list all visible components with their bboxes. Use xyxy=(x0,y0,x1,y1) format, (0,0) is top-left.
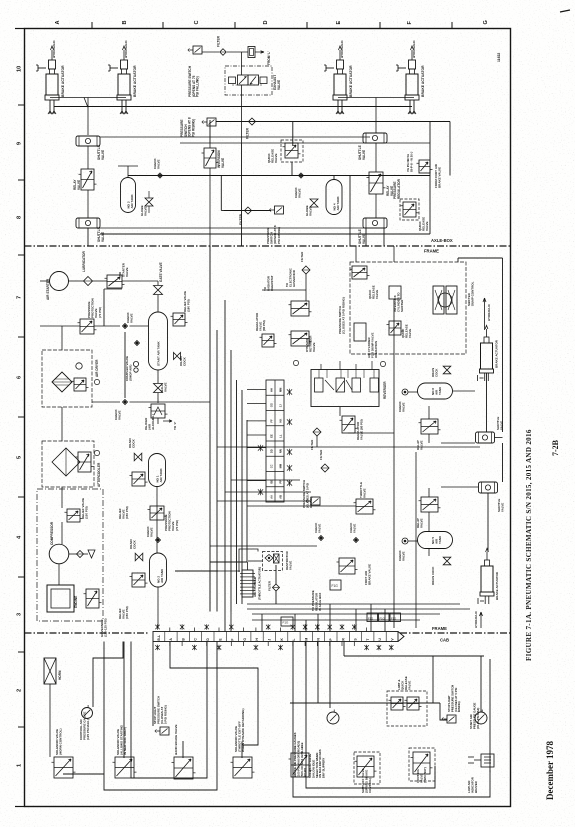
top-right page mark xyxy=(560,10,570,12)
cab right row y656 xyxy=(344,655,484,657)
svg-text:RELAYVALVE: RELAYVALVE xyxy=(416,518,424,528)
cab wiring loops right xyxy=(293,642,490,798)
brake actuator body xyxy=(118,74,130,95)
svg-text:NN: NN xyxy=(279,449,283,453)
hydraulic arrow right xyxy=(483,298,486,330)
wire riser x221 xyxy=(220,176,222,211)
wire trunk x241 xyxy=(241,52,243,75)
svg-text:HYDRAULIC: HYDRAULIC xyxy=(412,40,416,58)
check valve C5 xyxy=(123,400,128,405)
check valve C2 xyxy=(299,173,304,178)
svg-text:10: 10 xyxy=(17,66,23,72)
wire rv2 xyxy=(375,143,377,172)
filter F3 xyxy=(302,266,310,274)
svg-text:FIGURE 7-1A. PNEUMATIC SCHEMAT: FIGURE 7-1A. PNEUMATIC SCHEMATIC S/N 201… xyxy=(525,429,533,661)
no 1 air tank xyxy=(149,454,166,487)
svg-text:B-L: B-L xyxy=(157,635,161,641)
wire tank1 col xyxy=(156,487,158,553)
brake actuator push rods xyxy=(49,100,51,114)
push rod xyxy=(484,373,486,381)
regulator valve 80psi mid xyxy=(342,416,355,433)
wire tank3 up xyxy=(127,166,129,178)
cab right feed row y703 xyxy=(290,702,440,704)
de-icer xyxy=(151,404,165,418)
svg-text:2: 2 xyxy=(17,689,23,692)
wire cooler xyxy=(61,440,63,441)
svg-text:AB: AB xyxy=(279,495,283,499)
connector stars above xyxy=(155,624,159,630)
svg-text:D: D xyxy=(263,20,269,24)
wire row y614 xyxy=(252,613,440,615)
bar bottom stubs xyxy=(169,642,171,647)
control valve two way xyxy=(409,748,435,781)
stop light feed xyxy=(152,642,154,727)
svg-text:AA: AA xyxy=(270,495,274,499)
quick release valve dashed xyxy=(281,140,303,162)
ball valve xyxy=(154,384,163,393)
horn xyxy=(44,658,56,684)
governor xyxy=(86,589,99,608)
brake actuator stem xyxy=(485,560,490,566)
aftercooler valve xyxy=(78,452,91,472)
solenoid valve horn control xyxy=(54,757,73,778)
shuttle valve SV2 xyxy=(76,218,100,228)
svg-text:3: 3 xyxy=(17,613,23,616)
wire ps1 to filter xyxy=(202,51,219,53)
svg-text:11622: 11622 xyxy=(497,53,501,62)
brake actuator body xyxy=(481,566,493,592)
hand brake valve xyxy=(174,757,193,779)
svg-text:L: L xyxy=(292,639,296,641)
svg-text:DRAIN COCK: DRAIN COCK xyxy=(431,566,435,585)
svg-text:FROM FOOT AIRBRAKE VALVE: FROM FOOT AIRBRAKE VALVE xyxy=(434,163,442,188)
fig boxes above bar xyxy=(281,617,293,626)
svg-text:AXLE-BOX: AXLE-BOX xyxy=(431,238,453,243)
svg-text:7-2B: 7-2B xyxy=(551,439,560,456)
brake actuator T-handle xyxy=(326,67,334,69)
quick release valve D2 xyxy=(389,321,401,335)
brake actuator stem xyxy=(484,337,489,343)
svg-text:DRAINCOCK: DRAINCOCK xyxy=(128,438,136,448)
svg-text:DRAINCOCK: DRAINCOCK xyxy=(129,539,137,549)
svg-text:GG: GG xyxy=(270,403,274,407)
aftercooler dashed box xyxy=(42,441,94,487)
gauge feed xyxy=(93,642,123,708)
exhaust valve dashed box xyxy=(225,66,272,95)
svg-text:5: 5 xyxy=(17,456,23,459)
svg-text:FILTER: FILTER xyxy=(310,439,314,450)
svg-text:9: 9 xyxy=(17,142,23,145)
brake actuator body xyxy=(334,74,346,95)
wire x504 link xyxy=(495,437,503,439)
inversion valve xyxy=(204,148,216,168)
brake actuator T-handle xyxy=(398,67,406,69)
solenoid valve allows starting xyxy=(115,757,134,778)
grid ticks top xyxy=(91,22,93,29)
wire inversion xyxy=(209,143,211,148)
shuttle valve SV3 xyxy=(363,133,387,143)
air dryer desiccant xyxy=(52,372,72,392)
air cylinder throttle actuator xyxy=(242,570,253,597)
globe valve 2 xyxy=(310,199,318,207)
shuttle valve right 3 xyxy=(479,482,498,493)
wire y562 stub xyxy=(210,561,247,563)
coupler valve xyxy=(133,361,138,366)
svg-text:AIR CYLINDER: AIR CYLINDER xyxy=(253,577,257,597)
filter F1 xyxy=(220,49,227,56)
svg-text:CC: CC xyxy=(270,464,274,468)
check valve C7 xyxy=(402,389,408,395)
wire compressor-tank xyxy=(58,564,60,585)
svg-text:REGULATORVALVE (80 PSI): REGULATORVALVE (80 PSI) xyxy=(356,419,364,440)
start air tank xyxy=(149,312,168,370)
relief valve 180psi xyxy=(173,313,185,326)
brake actuator body xyxy=(46,74,58,95)
svg-text:HYDRAULIC: HYDRAULIC xyxy=(474,610,478,628)
drain cock 1 xyxy=(174,353,181,360)
brake actuator push rods xyxy=(337,100,339,114)
drawing border frame xyxy=(25,29,511,807)
svg-text:EE: EE xyxy=(270,434,274,438)
svg-text:SOLENOID VALVE(ALLOWS STARTI: SOLENOID VALVE(ALLOWS STARTINGIN NEUTRAL… xyxy=(116,724,127,755)
svg-text:VG PG NR 5A83-P-U - W 20-J: VG PG NR 5A83-P-U - W 20-J xyxy=(406,151,413,172)
air cylinder dump valve xyxy=(354,323,366,341)
control air pressure gauge xyxy=(82,708,93,719)
wire riser x366 xyxy=(365,228,367,246)
svg-text:AFTERCOOLER: AFTERCOOLER xyxy=(97,462,101,487)
fig reference box xyxy=(330,580,341,590)
limit quick release dashed xyxy=(387,691,427,726)
svg-text:REVERSER: REVERSER xyxy=(383,381,387,399)
connector stars below xyxy=(155,645,159,651)
cab connector bar xyxy=(153,632,398,642)
svg-text:FILTER: FILTER xyxy=(300,251,304,262)
stop light pressure switch 1 xyxy=(160,727,169,735)
svg-text:6: 6 xyxy=(17,376,23,379)
brake actuator body xyxy=(481,343,493,369)
grid ticks left xyxy=(18,104,25,106)
solenoid valve throttle cutoff xyxy=(233,757,252,778)
no 3 air tank xyxy=(121,178,136,213)
svg-text:FROM ‘L’: FROM ‘L’ xyxy=(267,51,271,65)
trunk x231 xyxy=(230,350,232,612)
wire rv1 down xyxy=(87,190,89,218)
air dryer dashed box xyxy=(42,350,92,407)
wire long row y143 xyxy=(180,142,430,144)
svg-text:HORN: HORN xyxy=(58,670,62,680)
compressor intake filter xyxy=(77,551,84,558)
no 6 air tank xyxy=(418,383,453,399)
svg-text:ENGINE: ENGINE xyxy=(74,596,78,608)
restrictor valve dashed xyxy=(263,552,283,571)
wire row y609 xyxy=(247,608,470,610)
regulator valve 80psi left xyxy=(262,334,274,347)
check valve C6 xyxy=(156,538,161,543)
wire x210 top xyxy=(209,120,211,143)
trunk x242 xyxy=(241,390,243,604)
cab gauge 2 xyxy=(327,712,339,724)
svg-text:DD: DD xyxy=(270,449,274,453)
shuttle valve SV4 xyxy=(363,218,387,228)
wire row y546 xyxy=(210,545,317,547)
svg-text:START AIR TANK: START AIR TANK xyxy=(157,341,161,366)
pressure switch 8psi b xyxy=(275,206,284,214)
svg-text:DRAINCOCK: DRAINCOCK xyxy=(179,356,187,366)
drain cock 4 xyxy=(443,366,451,374)
check valve C9 xyxy=(319,536,324,541)
wire ps2 row xyxy=(216,121,450,123)
svg-text:F1G: F1G xyxy=(368,617,373,621)
wire horn drop xyxy=(49,684,51,757)
reverser valves xyxy=(315,378,324,392)
engine dash-dot enclosure xyxy=(37,489,103,621)
svg-text:TO PRESSUREREGULATORIN AXLE BO: TO PRESSUREREGULATORIN AXLE BOX xyxy=(311,590,322,611)
svg-text:RELAYVALVE: RELAYVALVE xyxy=(416,440,424,450)
hydraulic arrow xyxy=(485,325,488,337)
wire row y234 xyxy=(100,233,430,235)
wire tank5 links xyxy=(408,540,418,542)
trunk x247 xyxy=(246,420,248,562)
svg-text:GLOBEVALVE: GLOBEVALVE xyxy=(140,205,148,216)
wire y571 extend xyxy=(175,570,218,572)
svg-text:MM: MM xyxy=(279,464,283,468)
start air pressure gauge xyxy=(475,712,487,724)
svg-text:LUBRICATOR: LUBRICATOR xyxy=(82,251,86,272)
wire row y175 xyxy=(128,175,430,177)
wire row y228 right xyxy=(100,227,366,229)
wire x430 drop xyxy=(429,122,431,235)
axle-box / frame divider xyxy=(25,245,511,247)
right long vertical x502.5 xyxy=(502,258,504,432)
buzzer drop xyxy=(489,659,491,772)
svg-text:RELAYVALVE: RELAYVALVE xyxy=(73,179,81,190)
wire tank2 down xyxy=(157,587,159,628)
svg-text:F1G: F1G xyxy=(391,617,396,621)
svg-text:BRAKE ACTUATOR: BRAKE ACTUATOR xyxy=(495,339,499,368)
brake actuator push rods xyxy=(409,100,411,114)
svg-text:HYDRAULIC: HYDRAULIC xyxy=(124,40,128,58)
wire ppv row xyxy=(40,325,80,327)
air starter valve xyxy=(107,275,122,288)
lubricator xyxy=(84,277,93,286)
shuttle valve right 2 xyxy=(476,432,495,443)
relief valve 150psi B xyxy=(132,472,145,486)
pressure switch opens at 75 psi xyxy=(193,46,202,54)
wire to J xyxy=(157,418,159,424)
filter F4 xyxy=(313,428,321,436)
circled marker dryer xyxy=(94,379,99,384)
no 2 air tank xyxy=(150,553,167,587)
wire actuator bus left lower xyxy=(54,106,412,108)
svg-text:HYDRAULIC: HYDRAULIC xyxy=(340,40,344,58)
shifter assembly dashed box xyxy=(350,262,466,354)
wire sv1 down xyxy=(87,146,89,169)
check valve C8 xyxy=(402,538,408,544)
svg-text:BRAKE ACTUATOR: BRAKE ACTUATOR xyxy=(61,65,65,97)
svg-text:J: J xyxy=(268,639,272,641)
wire actuator2 stem xyxy=(487,493,489,552)
reverser box xyxy=(311,370,379,407)
wire dryer connections xyxy=(61,326,63,350)
svg-text:(THROTTLE ACTUATOR): (THROTTLE ACTUATOR) xyxy=(258,567,262,600)
terminal strip stars xyxy=(287,389,292,395)
filter F5 xyxy=(321,464,329,472)
wire restrictor drop xyxy=(275,565,277,584)
svg-text:F1G: F1G xyxy=(380,617,385,621)
pressure protection valve 70psi xyxy=(80,319,94,334)
wire tank6 links xyxy=(408,391,418,393)
svg-text:HYDRAULIC: HYDRAULIC xyxy=(52,40,56,58)
wire filter to from-L xyxy=(227,51,248,53)
svg-text:FRAME: FRAME xyxy=(432,626,447,631)
svg-text:1: 1 xyxy=(17,764,23,767)
svg-text:F: F xyxy=(407,21,413,25)
air dryer pilot circle xyxy=(76,363,82,369)
svg-text:LL: LL xyxy=(279,434,283,438)
check valve C10 xyxy=(354,538,359,543)
svg-text:G: G xyxy=(243,638,247,641)
solenoid3 loop xyxy=(170,642,258,746)
relief valve 150psi A xyxy=(67,509,80,522)
no 4 air tank xyxy=(326,180,342,215)
trunk x217 xyxy=(216,330,218,612)
solenoid valve low idle xyxy=(291,753,309,777)
relay valve RV2 xyxy=(369,172,383,194)
wire hydraulic feed arrow xyxy=(339,46,342,60)
svg-text:E: E xyxy=(336,21,342,25)
brake actuator clevis xyxy=(121,60,128,69)
wire starter row xyxy=(40,280,50,282)
wire row y290 right xyxy=(305,274,307,301)
qr box bottom stub xyxy=(291,162,293,176)
wire actuator bus left xyxy=(50,97,126,99)
low air indicator buzzer xyxy=(481,754,494,767)
brake actuator T-handle xyxy=(110,67,118,69)
svg-text:COMPRESSOR: COMPRESSOR xyxy=(50,521,54,545)
wire from-L arrow xyxy=(255,51,264,54)
drain cock 2 xyxy=(134,453,142,461)
brake actuator clevis xyxy=(49,60,56,69)
hydraulic arrow right 2 xyxy=(480,612,483,628)
globe valve xyxy=(145,198,153,206)
quick release valve D1 xyxy=(352,266,367,279)
svg-text:TO ‘J’: TO ‘J’ xyxy=(173,422,177,430)
svg-text:BRAKE ACTUATOR: BRAKE ACTUATOR xyxy=(133,65,137,97)
air starter xyxy=(50,272,69,291)
wire riser x384 xyxy=(383,228,385,246)
svg-text:FILTER: FILTER xyxy=(268,580,272,591)
gate valve xyxy=(154,286,163,295)
wire right column x450 xyxy=(449,122,451,176)
exhaust valve 4-way xyxy=(238,75,249,85)
svg-text:GATE VALVE: GATE VALVE xyxy=(159,262,163,282)
svg-text:BRAKE ACTUATOR: BRAKE ACTUATOR xyxy=(349,65,353,97)
wire row y604 xyxy=(247,603,460,605)
filter F2 xyxy=(249,118,256,125)
svg-text:FILTER: FILTER xyxy=(319,449,323,460)
relief valve 150psi C xyxy=(132,573,145,587)
wire riser x350 xyxy=(349,176,351,247)
cab wiring loops left xyxy=(104,642,217,791)
wire row y571 xyxy=(218,570,240,572)
svg-text:FRAME: FRAME xyxy=(424,249,439,254)
svg-text:CAB: CAB xyxy=(440,638,449,643)
check valve C3 xyxy=(123,324,128,329)
wire actuator1 down to shuttle xyxy=(486,373,488,432)
brake actuator body xyxy=(406,74,418,95)
wire right trunk x394 xyxy=(393,299,395,628)
wire hydraulic feed arrow xyxy=(123,46,126,60)
switch2 feed xyxy=(440,703,447,720)
wire x241 to divider xyxy=(241,143,243,246)
svg-text:M: M xyxy=(304,638,308,641)
throttle valve xyxy=(356,499,373,514)
wire x104 riser xyxy=(103,289,105,326)
svg-text:SOLENOID VALVE(HORN CONTROL): SOLENOID VALVE(HORN CONTROL) xyxy=(55,729,63,756)
svg-text:G: G xyxy=(483,20,489,24)
push rod xyxy=(484,596,486,604)
drain cock 3 xyxy=(135,553,143,561)
wire reverser drop xyxy=(339,407,341,416)
relay valve RV1 xyxy=(81,169,94,190)
cab wiring verticals xyxy=(63,773,104,775)
relay valve R3 xyxy=(421,419,438,434)
wire check3 to tank xyxy=(130,325,149,327)
svg-text:HAND BRAKE VALVE: HAND BRAKE VALVE xyxy=(174,724,178,755)
svg-text:FILTER: FILTER xyxy=(239,213,243,225)
circled marker A xyxy=(380,361,385,366)
svg-text:FF: FF xyxy=(270,419,274,423)
wire check3 drop xyxy=(124,332,126,398)
circled marker B xyxy=(293,360,298,365)
wire feeders to mid switches xyxy=(231,479,300,481)
terminal strip table xyxy=(266,380,284,502)
svg-text:HH: HH xyxy=(270,388,274,392)
terminal strip feeders xyxy=(247,388,266,390)
interlock cylinder xyxy=(389,286,401,299)
bar stubs above xyxy=(230,612,232,632)
compressor xyxy=(49,544,69,564)
main vertical trunk x210 xyxy=(209,246,211,612)
svg-text:F: F xyxy=(231,639,235,641)
wire row y402 xyxy=(92,401,120,403)
svg-text:PRESSURESWITCH(OPENS AT 8PSI R: PRESSURESWITCH(OPENS AT 8PSI RISING) xyxy=(180,117,195,137)
wire actuator bus right xyxy=(338,97,414,99)
check valve C4 xyxy=(135,341,140,346)
svg-text:8: 8 xyxy=(17,216,23,219)
wire right trunk x416 xyxy=(415,452,417,628)
from L fitting xyxy=(248,47,255,58)
from foot air brake valve xyxy=(419,160,430,173)
shuttle valve SV1 xyxy=(76,136,100,146)
brake actuator clevis xyxy=(409,60,416,69)
svg-text:December 1978: December 1978 xyxy=(545,740,555,800)
bar top stubs xyxy=(169,628,171,632)
wire filter2 right xyxy=(292,122,294,147)
wire filter4 link xyxy=(316,436,318,447)
check valve C1 xyxy=(158,173,163,178)
air dryer valve xyxy=(74,378,86,391)
svg-text:BRAKE ACTUATOR: BRAKE ACTUATOR xyxy=(495,571,499,600)
filter F2b xyxy=(245,207,252,214)
svg-text:BRAKE ACTUATOR: BRAKE ACTUATOR xyxy=(421,65,425,97)
relay valve R4 xyxy=(421,497,438,512)
hydraulic arrow xyxy=(486,548,489,560)
svg-text:FILTER: FILTER xyxy=(217,35,221,47)
svg-text:7: 7 xyxy=(17,296,23,299)
wire y258 link xyxy=(458,257,503,259)
filter F6 xyxy=(273,584,280,591)
